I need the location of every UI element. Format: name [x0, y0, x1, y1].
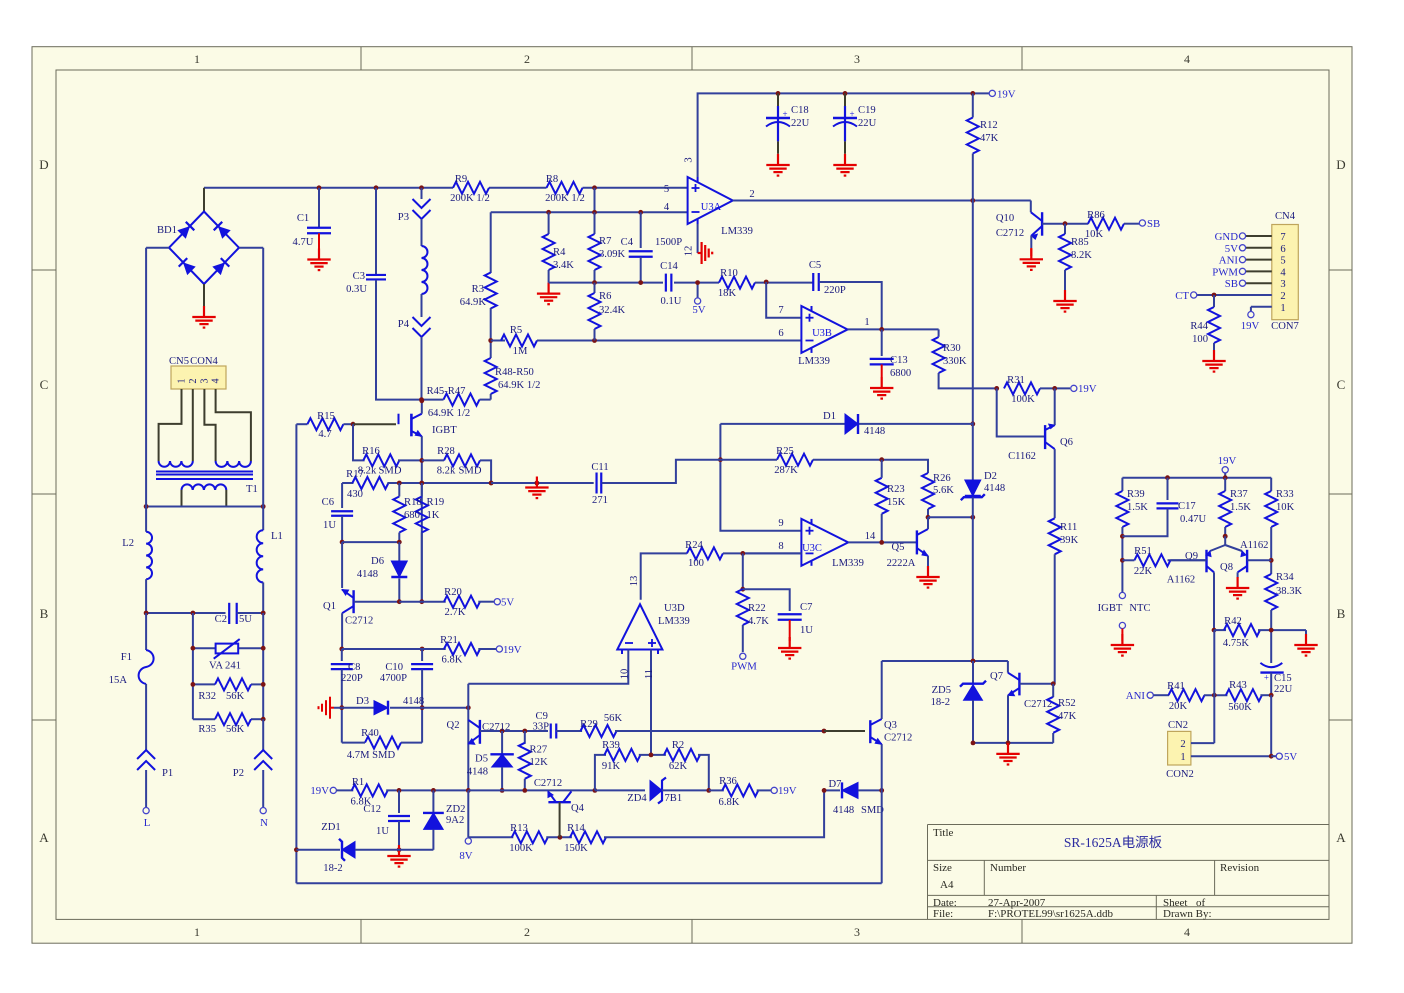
- svg-text:1: 1: [177, 379, 188, 384]
- svg-text:1.5K: 1.5K: [1127, 502, 1148, 513]
- svg-text:R20: R20: [444, 587, 462, 598]
- svg-text:4700P: 4700P: [380, 673, 407, 684]
- svg-text:1U: 1U: [376, 826, 389, 837]
- svg-text:LM339: LM339: [798, 356, 830, 367]
- svg-text:1: 1: [194, 52, 200, 66]
- svg-text:Revision: Revision: [1220, 862, 1260, 874]
- svg-text:2: 2: [188, 379, 199, 384]
- svg-text:R17: R17: [346, 469, 364, 480]
- svg-text:38.3K: 38.3K: [1276, 586, 1303, 597]
- svg-text:CN4: CN4: [1275, 211, 1296, 222]
- svg-text:18-2: 18-2: [931, 697, 950, 708]
- svg-text:C14: C14: [660, 261, 678, 272]
- svg-text:8.2k: 8.2k: [437, 466, 456, 477]
- svg-text:C3: C3: [353, 271, 365, 282]
- svg-text:R21: R21: [440, 635, 458, 646]
- svg-text:220P: 220P: [341, 673, 363, 684]
- svg-text:+: +: [849, 109, 854, 119]
- svg-text:6: 6: [778, 328, 783, 339]
- svg-text:Q1: Q1: [323, 601, 336, 612]
- svg-text:Number: Number: [990, 862, 1026, 874]
- svg-text:LM339: LM339: [721, 226, 753, 237]
- svg-text:C13: C13: [890, 355, 908, 366]
- svg-text:R22: R22: [748, 603, 766, 614]
- svg-text:150K: 150K: [564, 843, 588, 854]
- svg-text:R13: R13: [510, 823, 528, 834]
- svg-text:287K: 287K: [774, 465, 798, 476]
- svg-text:15A: 15A: [109, 675, 128, 686]
- svg-text:R34: R34: [1276, 572, 1294, 583]
- svg-text:4148: 4148: [357, 569, 378, 580]
- svg-text:56K: 56K: [226, 724, 245, 735]
- svg-text:19V: 19V: [778, 785, 797, 797]
- svg-text:C2712: C2712: [482, 722, 510, 733]
- svg-text:P2: P2: [233, 768, 244, 779]
- svg-text:U3D: U3D: [664, 603, 685, 614]
- svg-text:6800: 6800: [890, 368, 911, 379]
- svg-text:3: 3: [684, 157, 695, 162]
- svg-text:N: N: [260, 817, 268, 829]
- svg-text:64.9K 1/2: 64.9K 1/2: [428, 408, 470, 419]
- svg-text:R86: R86: [1087, 210, 1105, 221]
- svg-text:7: 7: [1280, 232, 1285, 243]
- svg-text:R32: R32: [198, 691, 216, 702]
- svg-text:C1162: C1162: [1008, 451, 1036, 462]
- svg-text:ZD1: ZD1: [321, 822, 340, 833]
- svg-text:R36: R36: [719, 776, 737, 787]
- svg-text:7B1: 7B1: [665, 793, 683, 804]
- svg-text:6: 6: [1280, 244, 1285, 255]
- svg-text:R25: R25: [776, 446, 794, 457]
- svg-text:0.1U: 0.1U: [661, 296, 682, 307]
- svg-text:Q5: Q5: [892, 542, 905, 553]
- svg-text:CT: CT: [1175, 290, 1189, 302]
- svg-text:560K: 560K: [1228, 702, 1252, 713]
- svg-text:L2: L2: [122, 538, 134, 549]
- svg-text:3: 3: [1280, 279, 1285, 290]
- svg-text:680: 680: [404, 510, 420, 521]
- svg-text:19V: 19V: [1218, 455, 1237, 467]
- svg-text:R3: R3: [472, 284, 484, 295]
- svg-text:64.9K: 64.9K: [460, 297, 487, 308]
- svg-text:IGBT: IGBT: [432, 425, 457, 436]
- svg-text:Title: Title: [933, 827, 954, 839]
- svg-text:1U: 1U: [800, 625, 813, 636]
- svg-text:47K: 47K: [1058, 711, 1077, 722]
- svg-text:19V: 19V: [1078, 383, 1097, 395]
- svg-text:R23: R23: [887, 484, 905, 495]
- svg-text:ZD2: ZD2: [446, 804, 465, 815]
- svg-text:PWM: PWM: [1212, 266, 1238, 278]
- svg-text:2: 2: [1280, 291, 1285, 302]
- svg-text:CON4: CON4: [190, 356, 218, 367]
- svg-text:C19: C19: [858, 105, 876, 116]
- svg-text:430: 430: [347, 489, 363, 500]
- svg-text:P4: P4: [398, 319, 410, 330]
- svg-text:C9: C9: [536, 711, 548, 722]
- svg-text:20K: 20K: [1169, 701, 1188, 712]
- svg-text:9: 9: [778, 518, 783, 529]
- svg-text:9A2: 9A2: [446, 815, 464, 826]
- svg-text:CON2: CON2: [1166, 769, 1194, 780]
- svg-text:R43: R43: [1229, 680, 1247, 691]
- svg-text:C10: C10: [385, 662, 403, 673]
- svg-text:U3C: U3C: [802, 543, 822, 554]
- svg-text:4: 4: [211, 379, 222, 384]
- svg-text:14: 14: [865, 531, 876, 542]
- svg-text:D: D: [39, 157, 48, 172]
- svg-text:4148: 4148: [864, 426, 885, 437]
- svg-text:18-2: 18-2: [323, 863, 342, 874]
- svg-text:R12: R12: [980, 120, 998, 131]
- svg-text:12K: 12K: [530, 757, 549, 768]
- svg-text:R85: R85: [1071, 237, 1089, 248]
- svg-text:56K: 56K: [604, 713, 623, 724]
- svg-text:R37: R37: [1230, 489, 1248, 500]
- svg-text:SR-1625A电源板: SR-1625A电源板: [1064, 835, 1163, 850]
- svg-text:3.09K: 3.09K: [599, 249, 626, 260]
- svg-text:100K: 100K: [509, 843, 533, 854]
- svg-text:Size: Size: [933, 862, 952, 874]
- svg-text:A1162: A1162: [1167, 575, 1195, 586]
- svg-text:P3: P3: [398, 212, 409, 223]
- svg-text:R27: R27: [530, 745, 548, 756]
- svg-text:L1: L1: [271, 531, 283, 542]
- svg-text:D1: D1: [823, 411, 836, 422]
- svg-text:R14: R14: [567, 823, 585, 834]
- svg-text:5.6K: 5.6K: [933, 485, 954, 496]
- svg-text:1500P: 1500P: [655, 237, 682, 248]
- svg-text:8: 8: [778, 541, 783, 552]
- svg-text:Q3: Q3: [884, 720, 897, 731]
- svg-text:C18: C18: [791, 105, 809, 116]
- svg-text:D7: D7: [829, 779, 842, 790]
- svg-text:R29: R29: [580, 719, 598, 730]
- svg-text:C6: C6: [322, 497, 334, 508]
- svg-text:4: 4: [1280, 267, 1286, 278]
- svg-text:19V: 19V: [503, 644, 522, 656]
- svg-text:5V: 5V: [501, 597, 514, 609]
- svg-text:GND: GND: [1215, 231, 1239, 243]
- svg-text:C2712: C2712: [996, 228, 1024, 239]
- svg-text:R51: R51: [1134, 546, 1152, 557]
- svg-text:A1162: A1162: [1240, 540, 1268, 551]
- svg-text:SMD: SMD: [459, 466, 482, 477]
- svg-text:13: 13: [629, 576, 640, 587]
- svg-text:1: 1: [194, 925, 200, 939]
- svg-text:R40: R40: [361, 728, 379, 739]
- svg-text:100: 100: [688, 558, 704, 569]
- svg-text:5: 5: [1280, 256, 1285, 267]
- svg-text:22U: 22U: [858, 118, 877, 129]
- svg-text:Q10: Q10: [996, 213, 1014, 224]
- svg-text:R1: R1: [352, 777, 364, 788]
- svg-text:C15: C15: [1274, 673, 1292, 684]
- svg-text:10: 10: [620, 669, 631, 680]
- svg-text:Q7: Q7: [990, 671, 1003, 682]
- svg-text:A: A: [39, 830, 49, 845]
- svg-text:CON7: CON7: [1271, 321, 1299, 332]
- svg-text:C2712: C2712: [884, 733, 912, 744]
- svg-text:R9: R9: [455, 174, 467, 185]
- svg-text:4148: 4148: [467, 767, 488, 778]
- svg-text:3: 3: [854, 925, 860, 939]
- svg-text:15K: 15K: [887, 497, 906, 508]
- svg-text:T1: T1: [246, 484, 258, 495]
- svg-text:2: 2: [524, 52, 530, 66]
- svg-text:R26: R26: [933, 473, 951, 484]
- svg-text:64.9K 1/2: 64.9K 1/2: [498, 380, 540, 391]
- svg-text:F1: F1: [121, 652, 132, 663]
- svg-text:R11: R11: [1060, 522, 1077, 533]
- svg-text:Q4: Q4: [571, 803, 585, 814]
- svg-text:C: C: [1337, 377, 1346, 392]
- svg-text:R6: R6: [599, 291, 611, 302]
- svg-text:R33: R33: [1276, 489, 1294, 500]
- svg-text:5: 5: [664, 184, 669, 195]
- svg-text:B: B: [40, 606, 49, 621]
- svg-text:R39: R39: [602, 740, 620, 751]
- svg-text:U3A: U3A: [701, 202, 722, 213]
- svg-text:LM339: LM339: [658, 616, 690, 627]
- svg-text:91K: 91K: [602, 761, 621, 772]
- svg-text:D5: D5: [475, 754, 488, 765]
- svg-text:ANI: ANI: [1219, 255, 1239, 267]
- svg-text:R28: R28: [437, 446, 455, 457]
- svg-text:19V: 19V: [310, 785, 329, 797]
- svg-text:4: 4: [1184, 925, 1190, 939]
- svg-text:62K: 62K: [669, 761, 688, 772]
- svg-text:10K: 10K: [1276, 502, 1295, 513]
- svg-text:VA 241: VA 241: [209, 661, 241, 672]
- svg-text:C8: C8: [348, 662, 360, 673]
- svg-text:18K: 18K: [718, 288, 737, 299]
- svg-text:PWM: PWM: [731, 661, 757, 673]
- svg-text:A4: A4: [940, 879, 954, 891]
- svg-text:F:\PROTEL99\sr1625A.ddb: F:\PROTEL99\sr1625A.ddb: [988, 908, 1113, 920]
- svg-text:C12: C12: [363, 804, 381, 815]
- svg-text:6.8K: 6.8K: [442, 655, 463, 666]
- svg-text:C17: C17: [1178, 501, 1196, 512]
- svg-text:2: 2: [749, 189, 754, 200]
- svg-text:C11: C11: [591, 462, 608, 473]
- svg-text:47K: 47K: [980, 133, 999, 144]
- svg-text:12: 12: [684, 246, 695, 257]
- svg-text:R8: R8: [546, 174, 558, 185]
- svg-text:B: B: [1337, 606, 1346, 621]
- svg-text:22U: 22U: [1274, 684, 1293, 695]
- svg-text:56K: 56K: [226, 691, 245, 702]
- svg-text:R4: R4: [553, 247, 566, 258]
- svg-text:R35: R35: [198, 724, 216, 735]
- svg-text:C2: C2: [215, 614, 227, 625]
- svg-text:+: +: [1264, 673, 1269, 683]
- svg-text:R48-R50: R48-R50: [495, 367, 534, 378]
- svg-text:Q6: Q6: [1060, 437, 1073, 448]
- svg-text:R31: R31: [1007, 375, 1025, 386]
- svg-text:ZD5: ZD5: [932, 685, 951, 696]
- svg-text:1K: 1K: [427, 510, 440, 521]
- svg-text:3: 3: [199, 379, 210, 384]
- svg-text:1.5K: 1.5K: [1230, 502, 1251, 513]
- svg-text:A: A: [1336, 830, 1346, 845]
- svg-text:R45-R47: R45-R47: [427, 386, 466, 397]
- svg-text:D: D: [1336, 157, 1345, 172]
- svg-text:5V: 5V: [692, 304, 705, 316]
- svg-text:11: 11: [644, 669, 655, 679]
- svg-text:+: +: [782, 109, 787, 119]
- svg-text:2: 2: [524, 925, 530, 939]
- svg-text:Q2: Q2: [447, 720, 460, 731]
- svg-text:R42: R42: [1224, 616, 1242, 627]
- svg-text:R41: R41: [1167, 681, 1185, 692]
- svg-text:7: 7: [778, 305, 783, 316]
- svg-text:4148: 4148: [984, 483, 1005, 494]
- svg-text:200K 1/2: 200K 1/2: [545, 193, 585, 204]
- svg-text:33P: 33P: [533, 722, 550, 733]
- svg-text:330K: 330K: [943, 356, 967, 367]
- svg-text:0.3U: 0.3U: [346, 284, 367, 295]
- svg-text:220P: 220P: [824, 285, 846, 296]
- svg-text:1U: 1U: [323, 520, 336, 531]
- svg-text:100: 100: [1192, 334, 1208, 345]
- svg-text:R24: R24: [685, 540, 703, 551]
- svg-text:R30: R30: [943, 343, 961, 354]
- svg-text:39K: 39K: [1060, 535, 1079, 546]
- svg-text:File:: File:: [933, 908, 953, 920]
- svg-text:R44: R44: [1190, 321, 1208, 332]
- svg-text:LM339: LM339: [832, 558, 864, 569]
- svg-text:3: 3: [854, 52, 860, 66]
- svg-text:R19: R19: [427, 497, 445, 508]
- svg-text:CN2: CN2: [1168, 720, 1188, 731]
- svg-text:8.2K: 8.2K: [1071, 250, 1092, 261]
- svg-text:100K: 100K: [1011, 394, 1035, 405]
- svg-text:R15: R15: [317, 411, 335, 422]
- svg-text:C4: C4: [621, 237, 634, 248]
- svg-text:8V: 8V: [459, 850, 472, 862]
- svg-text:4.7U: 4.7U: [293, 237, 314, 248]
- svg-text:1: 1: [1180, 752, 1185, 763]
- svg-text:6.8K: 6.8K: [719, 797, 740, 808]
- svg-text:22U: 22U: [791, 118, 810, 129]
- svg-text:BD1: BD1: [157, 225, 177, 236]
- svg-text:ZD4: ZD4: [627, 793, 647, 804]
- svg-text:Q8: Q8: [1220, 562, 1233, 573]
- svg-text:R16: R16: [362, 446, 380, 457]
- svg-text:C1: C1: [297, 213, 309, 224]
- svg-text:1: 1: [1280, 303, 1285, 314]
- svg-text:R39: R39: [1127, 489, 1145, 500]
- svg-text:R2: R2: [672, 740, 684, 751]
- svg-text:U3B: U3B: [812, 328, 832, 339]
- svg-text:D3: D3: [356, 696, 369, 707]
- svg-text:C7: C7: [800, 602, 812, 613]
- svg-text:C2712: C2712: [534, 778, 562, 789]
- svg-text:5U: 5U: [239, 614, 252, 625]
- svg-text:D2: D2: [984, 471, 997, 482]
- svg-text:1: 1: [864, 317, 869, 328]
- svg-text:C2712: C2712: [345, 616, 373, 627]
- svg-text:R52: R52: [1058, 698, 1076, 709]
- svg-text:22K: 22K: [1134, 566, 1153, 577]
- svg-text:D6: D6: [371, 556, 384, 567]
- svg-text:R18: R18: [404, 497, 422, 508]
- svg-text:5V: 5V: [1284, 751, 1297, 763]
- svg-text:2: 2: [1180, 739, 1185, 750]
- svg-text:C5: C5: [809, 260, 821, 271]
- svg-text:4148: 4148: [403, 696, 424, 707]
- svg-text:271: 271: [592, 495, 608, 506]
- svg-text:R7: R7: [599, 236, 611, 247]
- svg-text:4: 4: [1184, 52, 1190, 66]
- svg-text:Drawn By:: Drawn By:: [1163, 908, 1212, 920]
- svg-text:SMD: SMD: [379, 466, 402, 477]
- svg-text:4148: 4148: [833, 805, 854, 816]
- svg-text:R5: R5: [510, 325, 522, 336]
- svg-text:0.47U: 0.47U: [1180, 514, 1207, 525]
- svg-text:32.4K: 32.4K: [599, 305, 626, 316]
- svg-text:19V: 19V: [997, 89, 1016, 101]
- svg-text:IGBT: IGBT: [1098, 603, 1123, 614]
- svg-text:C: C: [40, 377, 49, 392]
- svg-text:2.7K: 2.7K: [445, 607, 466, 618]
- svg-text:4: 4: [664, 202, 670, 213]
- svg-text:200K 1/2: 200K 1/2: [450, 193, 490, 204]
- svg-text:CN5: CN5: [169, 356, 189, 367]
- svg-text:SB: SB: [1225, 278, 1238, 290]
- svg-text:4.7K: 4.7K: [748, 616, 769, 627]
- svg-text:R10: R10: [720, 268, 738, 279]
- svg-text:4.7M SMD: 4.7M SMD: [347, 750, 396, 761]
- svg-text:4.75K: 4.75K: [1223, 638, 1250, 649]
- svg-text:2222A: 2222A: [887, 558, 916, 569]
- svg-text:1M: 1M: [513, 346, 528, 357]
- svg-text:3.4K: 3.4K: [553, 260, 574, 271]
- svg-text:ANI: ANI: [1126, 690, 1146, 702]
- svg-text:4.7: 4.7: [318, 429, 331, 440]
- svg-text:SB: SB: [1147, 218, 1160, 230]
- svg-text:5V: 5V: [1225, 243, 1238, 255]
- svg-text:NTC: NTC: [1129, 603, 1150, 614]
- svg-text:19V: 19V: [1241, 320, 1260, 332]
- svg-text:P1: P1: [162, 768, 173, 779]
- svg-text:L: L: [144, 817, 151, 829]
